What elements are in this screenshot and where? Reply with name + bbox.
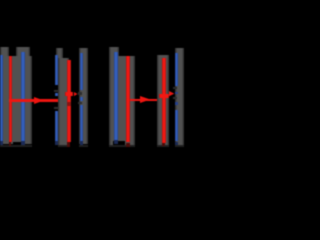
cell 2 positive plate shaded segment below wire [67, 102, 71, 106]
cell 3 positive plate (red) [126, 56, 131, 142]
cell 1 negative plate right (blue) [21, 52, 25, 141]
cell 1 raised lid right wing [16, 47, 30, 56]
ion-flow arrow tip into cell 4 [169, 91, 175, 97]
cell 1 electrolyte base slab [0, 56, 32, 145]
ion-flow arrow bar into cell 4 [159, 94, 169, 99]
cell 2 right negative plate (blue, interrupted) [80, 53, 83, 90]
cell 2 left negative plate (blue, interrupted by charge labels) [55, 55, 59, 85]
cell 1 negative plate left reflection [0, 141, 3, 145]
cell 4 right under-shadow [175, 145, 184, 147]
cell 2 left under-shadow [58, 145, 69, 148]
minus signs near cell 4 plate [173, 87, 178, 89]
minus signs on cell 2 left plate [54, 90, 60, 93]
cell 2 left negative plate reflection [55, 141, 59, 145]
cell 1 raised lid left wing [0, 47, 9, 56]
cell 2 left raised lid [56, 48, 63, 58]
cell 1 bottom opening notch [13, 142, 22, 144]
cell 3 negative plate (blue) [114, 52, 118, 141]
current arrowhead on wire 1 [34, 97, 45, 105]
cell 4 left under-shadow [157, 145, 169, 148]
cell 1 negative plate right reflection [21, 141, 25, 145]
cell 4 left electrolyte piece [157, 55, 169, 145]
cell 3 raised lid left wing [109, 47, 119, 56]
wire from cell 3 positive plate to cell 4 [130, 99, 162, 101]
ion-flow arrow bar into cell 2 [65, 92, 74, 96]
cell 4 negative plate (blue, interrupted) [175, 53, 179, 86]
cell 1 positive plate (red) [9, 56, 12, 142]
current arrowhead on wire 2 [140, 96, 151, 104]
cell 1 negative plate left (blue) [0, 55, 3, 142]
cell 4 negative plate reflection [175, 142, 179, 146]
cell 3 positive plate reflection [126, 143, 130, 147]
ion-flow arrow tip into cell 2 [74, 92, 78, 97]
cell 2 left electrolyte base [58, 58, 69, 145]
cell 4 positive plate (red) [162, 58, 166, 143]
cell 4 positive plate reflection [162, 143, 165, 147]
cell 3 electrolyte base slab [109, 56, 135, 145]
cell 2 positive plate (red) [67, 60, 71, 142]
cell 2 positive plate reflection [67, 142, 70, 147]
cell 3 under-shadow [109, 145, 135, 148]
cell 1 under-shadow [0, 145, 32, 147]
cell 2 right negative plate reflection [80, 141, 83, 145]
cell 1 positive plate reflection [9, 142, 11, 146]
cell 3 bottom opening notch [113, 141, 125, 145]
cell 3 negative plate reflection [114, 140, 118, 144]
wire from cell 1 positive plate to cell 2 [9, 99, 70, 101]
cell 4 right electrolyte piece [175, 48, 184, 145]
minus signs near cell 2 right plate [78, 92, 83, 94]
cell 2 right under-shadow [79, 145, 88, 148]
cell 2 right electrolyte piece [79, 48, 88, 145]
